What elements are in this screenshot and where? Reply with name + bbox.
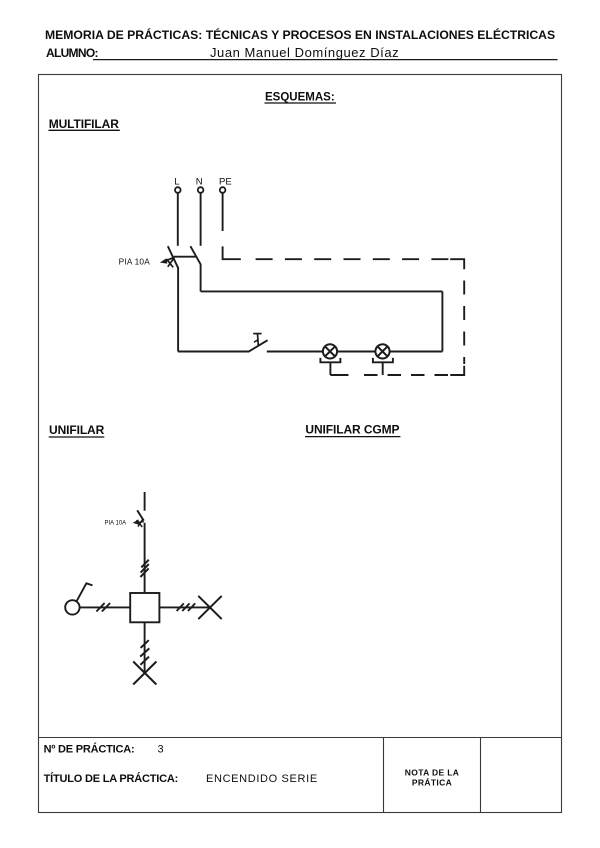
wire N across bbox=[201, 290, 443, 292]
switch S actuator bbox=[253, 334, 261, 346]
svg-text:PIA 10A: PIA 10A bbox=[105, 521, 127, 527]
wire N to lamp2 bbox=[389, 351, 442, 353]
unifilar switch lever bbox=[77, 583, 93, 601]
lamp E1 ground stub bbox=[329, 362, 331, 375]
svg-text:Juan Manuel Domínguez Díaz: Juan Manuel Domínguez Díaz bbox=[210, 45, 399, 60]
PE dashed bottom run bbox=[356, 374, 449, 376]
wire L drop bbox=[177, 192, 179, 245]
breaker pole L blade bbox=[168, 246, 179, 268]
lamp E1 cross bbox=[325, 346, 335, 356]
svg-text:UNIFILAR: UNIFILAR bbox=[49, 423, 105, 437]
junction box bbox=[130, 593, 159, 622]
unifilar lamp hash down bbox=[140, 640, 149, 665]
switch S blade bbox=[248, 340, 267, 352]
wire L to switch (down) bbox=[177, 268, 179, 352]
wire switch to lamp1 bbox=[267, 351, 323, 353]
wire N drop bbox=[200, 192, 202, 245]
unifilar switch hash bbox=[96, 603, 110, 612]
lamp E2 circle bbox=[375, 344, 389, 358]
unifilar lamp wire down bbox=[144, 622, 146, 673]
lamp E2 cross bbox=[377, 346, 387, 356]
PE dashed top run bbox=[256, 258, 449, 260]
svg-text:3: 3 bbox=[158, 743, 164, 755]
lamp E1 circle bbox=[323, 344, 337, 358]
wire N right drop bbox=[441, 291, 443, 351]
unifilar feeder hash bbox=[140, 560, 148, 577]
PE dashed right run bbox=[463, 281, 465, 365]
svg-text:NOTA DE LA: NOTA DE LA bbox=[405, 767, 460, 777]
terminal PE circle bbox=[220, 187, 226, 193]
svg-text:MEMORIA DE PRÁCTICAS: TÉCNICAS: MEMORIA DE PRÁCTICAS: TÉCNICAS Y PROCESO… bbox=[45, 27, 555, 42]
wire lamp1 to lamp2 bbox=[337, 351, 375, 353]
svg-text:PE: PE bbox=[219, 177, 232, 188]
terminal L circle bbox=[175, 187, 181, 193]
svg-text:Nº DE PRÁCTICA:: Nº DE PRÁCTICA: bbox=[44, 742, 135, 755]
svg-text:UNIFILAR CGMP: UNIFILAR CGMP bbox=[305, 423, 399, 437]
svg-text:ALUMNO:: ALUMNO: bbox=[46, 46, 98, 60]
wire L to switch (across) bbox=[178, 351, 249, 353]
wire PE drop solid bbox=[222, 192, 224, 231]
PE dashed elbow bbox=[223, 246, 241, 259]
unifilar lamp hash right bbox=[177, 603, 196, 611]
unifilar lamp X right bbox=[198, 596, 221, 619]
unifilar feeder wire bbox=[144, 523, 146, 593]
breaker trip arrow bbox=[160, 257, 174, 267]
unifilar PIA blade bbox=[137, 510, 144, 520]
svg-text:ESQUEMAS:: ESQUEMAS: bbox=[265, 92, 335, 104]
unifilar switch circle bbox=[65, 600, 79, 614]
terminal N circle bbox=[198, 187, 204, 193]
svg-text:ENCENDIDO SERIE: ENCENDIDO SERIE bbox=[206, 773, 318, 785]
lamp E1 bracket bbox=[320, 358, 340, 362]
PE dashed bottom-right corner bbox=[450, 366, 464, 375]
unifilar switch wire bbox=[80, 606, 130, 608]
unifilar supply wire bbox=[144, 492, 146, 511]
lamp E2 ground stub bbox=[382, 362, 384, 375]
svg-text:MULTIFILAR: MULTIFILAR bbox=[49, 117, 120, 131]
unifilar lamp wire right bbox=[160, 606, 210, 608]
breaker link bar bbox=[174, 256, 196, 258]
lamp E2 bracket bbox=[373, 358, 393, 362]
PE dashed top-right corner bbox=[450, 259, 464, 269]
unifilar lamp X down bbox=[133, 662, 156, 685]
table divider 2 bbox=[480, 738, 482, 813]
table divider 1 bbox=[383, 738, 385, 813]
svg-text:TÍTULO DE LA PRÁCTICA:: TÍTULO DE LA PRÁCTICA: bbox=[44, 772, 179, 785]
svg-text:L: L bbox=[174, 177, 179, 188]
PE bottom solid to lamp1 bbox=[330, 374, 348, 376]
svg-text:PIA 10A: PIA 10A bbox=[119, 256, 151, 266]
svg-text:PRÁTICA: PRÁTICA bbox=[412, 777, 452, 787]
page frame bbox=[39, 75, 562, 813]
svg-text:N: N bbox=[196, 177, 203, 188]
wire N down bbox=[200, 264, 202, 291]
alumno underline bbox=[93, 59, 558, 61]
breaker pole N blade bbox=[190, 246, 200, 264]
unifilar PIA trip arrow bbox=[133, 519, 144, 527]
table top line bbox=[39, 737, 562, 739]
